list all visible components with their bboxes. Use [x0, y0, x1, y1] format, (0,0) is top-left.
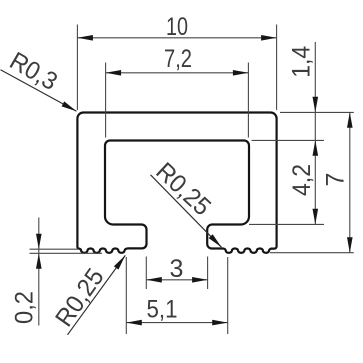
leader R0,25 upper	[151, 175, 222, 248]
arrowhead dimension 7 bottom	[347, 237, 353, 253]
svg-text:1,4: 1,4	[288, 46, 316, 78]
arrowhead leader R0,25 lower	[114, 254, 128, 270]
dimension line 7,2	[106, 72, 249, 74]
arrowhead dimension 10 left	[77, 35, 93, 41]
arrowhead dimension 7,2 right	[233, 70, 249, 76]
extension line top edge right	[280, 111, 354, 113]
extension line right of 3	[207, 257, 209, 290]
dimension line 0,2	[38, 218, 40, 326]
extension line right of 10	[276, 25, 278, 111]
arrowhead leader R0,25 upper	[209, 234, 224, 249]
arrowhead dimension 7,2 left	[106, 70, 122, 76]
svg-text:5,1: 5,1	[147, 296, 178, 324]
extension line inner top right	[252, 139, 325, 141]
arrowhead dimension 1,4 top	[313, 97, 319, 113]
svg-text:0,2: 0,2	[11, 291, 39, 324]
extension line crest level left	[30, 248, 79, 250]
profile outline	[77, 113, 276, 253]
svg-text:4,2: 4,2	[288, 164, 316, 196]
arrowhead dimension 0,2 upper	[36, 234, 42, 250]
arrowhead dimension 5,1 right	[212, 320, 228, 326]
extension line left of 10	[76, 25, 78, 111]
arrowhead dimension 4,2 bottom	[313, 209, 319, 225]
leader R0,3	[1, 70, 77, 112]
arrowhead dimension 3 right	[192, 277, 208, 283]
dimension line 5,1	[126, 322, 227, 324]
arrowhead dimension 5,1 left	[126, 320, 142, 326]
svg-text:7: 7	[322, 173, 350, 187]
extension line left of 7,2	[105, 63, 107, 138]
dimension line 3	[146, 279, 207, 281]
arrowhead dimension 1,4 bottom / 4,2 top	[313, 140, 319, 156]
extension line left of 5,1	[125, 257, 127, 334]
arrowhead dimension 3 left	[146, 277, 162, 283]
arrowhead dimension 7 top	[347, 112, 353, 128]
svg-text:3: 3	[170, 255, 184, 283]
dimension line 10	[77, 37, 276, 39]
extension line cavity floor right	[249, 223, 324, 225]
svg-text:10: 10	[166, 13, 188, 41]
dimension line 7	[349, 112, 351, 252]
extension line valley level left	[30, 252, 103, 254]
extension line bottom right	[270, 252, 354, 254]
arrowhead dimension 10 right	[261, 35, 277, 41]
arrowhead dimension 0,2 lower	[36, 253, 42, 268]
arrowhead leader R0,3	[62, 101, 78, 113]
dimension line 1,4 and 4,2	[314, 42, 316, 224]
extension line left of 3	[145, 257, 147, 290]
svg-text:7,2: 7,2	[164, 45, 192, 73]
leader R0,25 lower	[68, 255, 126, 334]
extension line right of 7,2	[247, 63, 249, 138]
extension line right of 5,1	[227, 257, 229, 334]
